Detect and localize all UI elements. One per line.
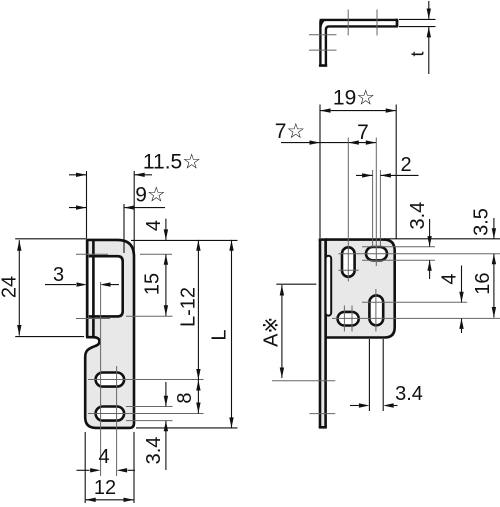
dimension 3.4 right view line xyxy=(427,219,431,279)
svg-text:7: 7 xyxy=(357,121,369,144)
dimension L-12 line xyxy=(196,240,200,380)
left view cutout top extension for dim 4 xyxy=(140,253,172,255)
left view slot centerline vertical a xyxy=(100,282,102,476)
right view centerline y 254 xyxy=(338,253,500,255)
dimension t extension bottom xyxy=(399,26,436,28)
left view cutout bottom extension for dim 15 xyxy=(126,315,173,317)
section leg tick c xyxy=(309,34,337,36)
right view slot top-left vertical xyxy=(342,247,355,276)
right view slot bottom edge ext xyxy=(362,259,435,261)
section tick centerline b xyxy=(376,10,378,36)
svg-text:11.5☆: 11.5☆ xyxy=(143,151,201,174)
left view wall tick upper xyxy=(76,253,108,255)
right view slot bottom-right vertical xyxy=(369,295,383,325)
dimension 8 line xyxy=(196,380,200,414)
right view strip tick lower xyxy=(310,413,336,415)
right view bend relief slot xyxy=(326,256,332,316)
dimension 12 line xyxy=(85,432,134,503)
svg-text:7☆: 7☆ xyxy=(275,120,306,143)
left view flange cutout xyxy=(89,256,123,316)
right view side flange strip xyxy=(319,240,327,428)
left view inner bend line xyxy=(92,240,95,338)
section leg bottom cap xyxy=(319,64,327,66)
svg-text:4: 4 xyxy=(143,220,165,231)
svg-text:16: 16 xyxy=(472,272,494,294)
dimension L line xyxy=(229,240,233,428)
svg-text:24: 24 xyxy=(0,276,20,298)
svg-text:L-12: L-12 xyxy=(178,287,200,327)
right view top edge ext xyxy=(384,238,500,240)
dimension 2 line xyxy=(356,173,419,177)
svg-text:3.4: 3.4 xyxy=(143,437,165,465)
dimension 4 right view line xyxy=(459,266,463,334)
dimension A line xyxy=(276,284,316,378)
svg-text:3.5: 3.5 xyxy=(471,208,493,236)
section leg tick d xyxy=(309,49,337,51)
dimension 3.4 left view line xyxy=(164,382,168,470)
svg-text:3: 3 xyxy=(53,264,64,286)
left view slot2 centerline horizontal xyxy=(88,413,204,415)
dimension t line and arrows xyxy=(427,1,431,74)
left view slot1 centerline horizontal xyxy=(88,379,204,381)
right view slot3 semicenter a xyxy=(343,306,345,332)
left view slot lower xyxy=(96,407,125,421)
right view slot top edge ext xyxy=(362,246,435,248)
svg-text:19☆: 19☆ xyxy=(333,87,375,110)
section right end cap xyxy=(396,19,398,27)
dimension 3.4 bottom right line xyxy=(350,339,398,411)
svg-text:3.4: 3.4 xyxy=(407,202,429,230)
right view y318 centerline ext xyxy=(332,317,500,319)
svg-text:3.4: 3.4 xyxy=(395,383,423,405)
section tick centerline a xyxy=(347,10,349,36)
right view slot4 upper semicenter ext xyxy=(362,301,467,303)
dimension 4 bottom line xyxy=(77,468,136,472)
right view slot bottom-left horizontal xyxy=(338,312,359,326)
left view slot centerline vertical b xyxy=(116,366,118,476)
section view L-profile outline xyxy=(320,19,398,66)
left view body outline xyxy=(85,240,134,428)
right view slot1 lower semicenter xyxy=(338,269,358,271)
svg-text:t: t xyxy=(408,51,428,56)
svg-text:4: 4 xyxy=(439,273,461,284)
svg-text:9☆: 9☆ xyxy=(135,184,166,207)
dimension 3.5 and 16 line xyxy=(492,218,496,318)
right view slot top-right horizontal xyxy=(366,247,387,260)
svg-text:A※: A※ xyxy=(261,317,283,347)
dimension 24 line xyxy=(15,239,86,337)
svg-text:12: 12 xyxy=(94,477,116,499)
left view outer wall line xyxy=(86,240,89,337)
right view slot4 centerline vertical xyxy=(375,289,377,332)
right view dim2 ext b xyxy=(379,170,381,246)
left view slot2 top extension xyxy=(126,406,173,408)
dimension t extension top xyxy=(399,18,436,20)
dimension 9 line xyxy=(69,204,165,253)
left view bottom edge extension xyxy=(136,427,238,429)
right view centerline x 376 upper xyxy=(375,143,377,266)
svg-text:L: L xyxy=(209,329,231,340)
left view slot upper xyxy=(96,373,125,387)
right view centerline x 348 xyxy=(347,143,349,282)
left view wall tick lower xyxy=(76,318,110,320)
dimension 19 line xyxy=(320,105,396,239)
svg-text:2: 2 xyxy=(400,154,411,176)
dimension 11.5 line xyxy=(69,171,152,254)
left view top edge extension xyxy=(131,239,238,241)
left view slot2 bottom extension xyxy=(126,420,173,422)
right view slot3 semicenter b xyxy=(351,306,353,332)
dimension 4 and 15 vertical line xyxy=(164,219,168,316)
svg-text:4: 4 xyxy=(98,446,109,468)
right view face plate outline xyxy=(326,240,395,338)
dimension 3 line xyxy=(45,282,119,286)
svg-text:15: 15 xyxy=(142,273,164,295)
right view dim2 ext a xyxy=(372,170,374,246)
dimension 7 line with arrows xyxy=(281,138,376,145)
svg-text:8: 8 xyxy=(174,392,196,403)
right view strip tick upper xyxy=(272,380,335,382)
